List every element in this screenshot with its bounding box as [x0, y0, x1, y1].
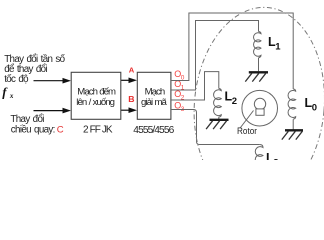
svg-text:1: 1: [275, 42, 281, 53]
svg-text:Thay đổi: Thay đổi: [10, 114, 44, 125]
svg-text:C: C: [57, 124, 64, 135]
svg-text:tốc độ: tốc độ: [4, 74, 29, 85]
svg-text:Rotor: Rotor: [237, 126, 257, 136]
svg-text:0: 0: [312, 103, 317, 114]
svg-text:lên / xuống: lên / xuống: [76, 97, 114, 108]
svg-text:chiều quay:: chiều quay:: [11, 124, 55, 135]
svg-text:giải mã: giải mã: [141, 97, 167, 108]
svg-text:2: 2: [232, 96, 237, 107]
svg-text:x: x: [9, 92, 14, 100]
svg-text:Mạch đếm: Mạch đếm: [77, 86, 116, 97]
svg-text:A: A: [129, 66, 135, 75]
svg-text:2 FF JK: 2 FF JK: [83, 124, 113, 135]
svg-text:f: f: [2, 85, 8, 99]
svg-text:Mạch: Mạch: [145, 86, 165, 97]
svg-text:4555/4556: 4555/4556: [133, 125, 174, 136]
svg-text:B: B: [128, 94, 134, 104]
svg-text:3: 3: [273, 158, 278, 160]
